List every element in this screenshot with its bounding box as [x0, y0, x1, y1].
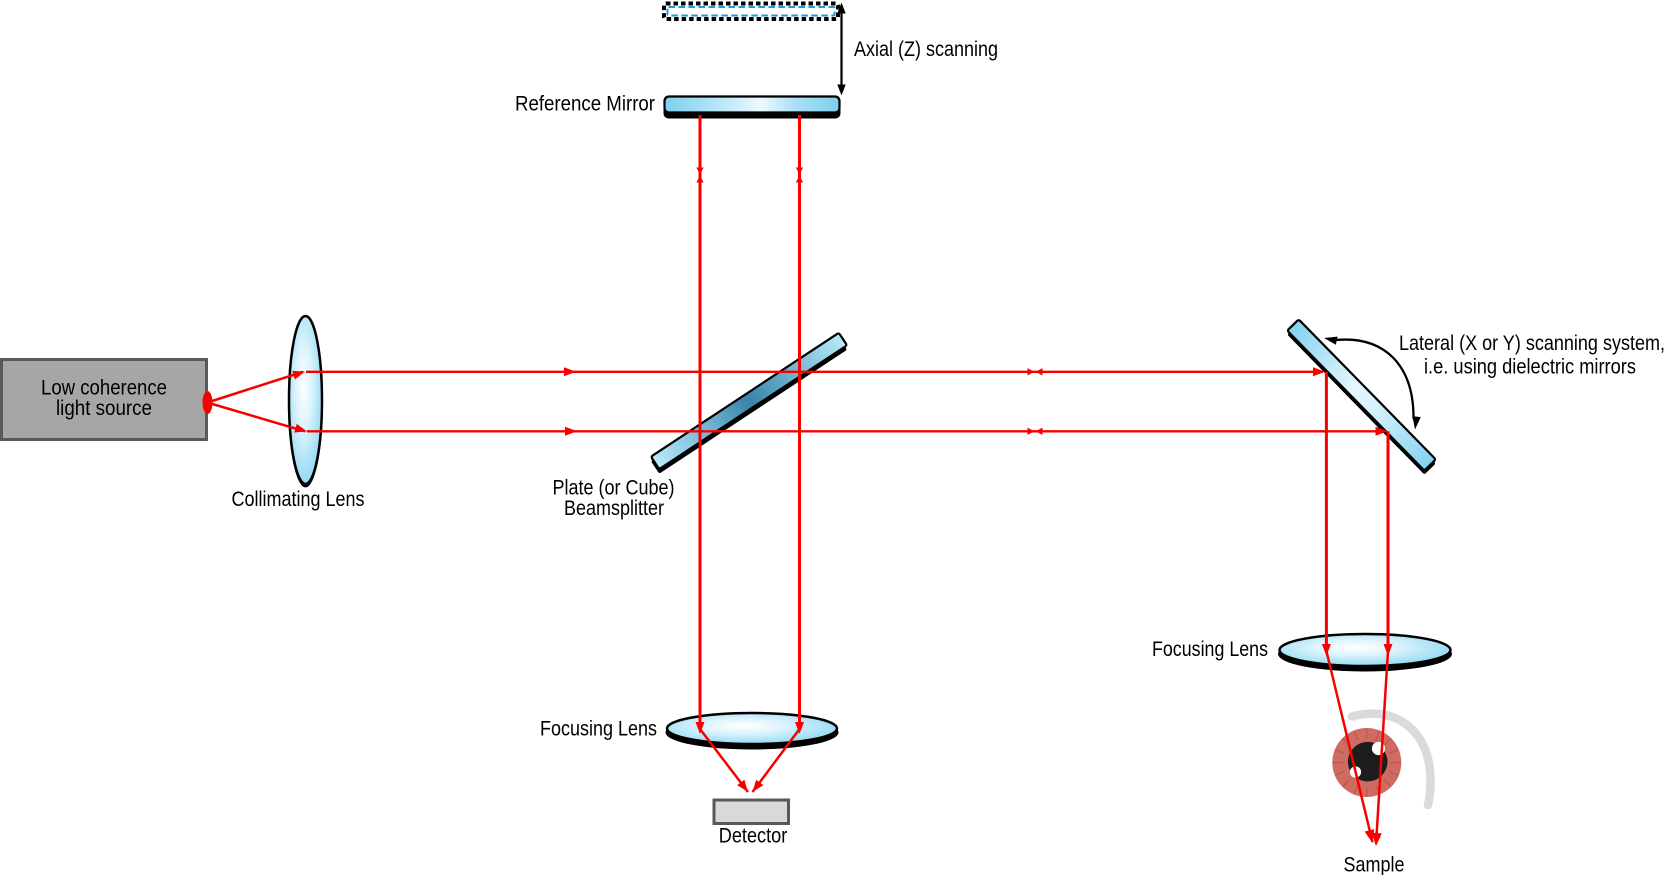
arrow: into detector-arm lens left	[696, 722, 705, 734]
arrow: lower horizontal mid	[565, 427, 577, 436]
double-arrow marker: reference arm left	[696, 168, 703, 183]
svg-text:Lateral (X or Y) scanning syst: Lateral (X or Y) scanning system,	[1399, 332, 1664, 355]
reference mirror	[664, 97, 841, 119]
eye sclera shading arc	[1352, 714, 1431, 805]
plate beamsplitter	[651, 333, 847, 474]
collimating lens	[288, 316, 323, 488]
focusing lens (detector arm)	[666, 713, 839, 750]
axial-scan ghost mirror (dashed selection rectangle)	[664, 4, 838, 20]
beam: sample arm vertical right	[1387, 431, 1390, 652]
red arrowheads	[292, 168, 1392, 847]
arrow: lower ray into collimating lens	[294, 424, 308, 436]
beam: converging to sample left	[1326, 651, 1372, 842]
eye iris	[1332, 728, 1401, 797]
arrow: into sample-arm lens right	[1384, 644, 1393, 656]
double-arrow marker: upper horizontal	[1028, 368, 1043, 375]
svg-text:Beamsplitter: Beamsplitter	[564, 497, 664, 520]
svg-text:i.e. using dielectric mirrors: i.e. using dielectric mirrors	[1424, 356, 1636, 379]
arrow: upper horizontal at lateral mirror	[1313, 367, 1325, 376]
pupil glints	[1372, 742, 1385, 755]
arrow: upper ray into collimating lens	[292, 367, 306, 379]
svg-text:Focusing Lens: Focusing Lens	[540, 718, 657, 741]
beam: upper horizontal (lens to lateral mirror)	[306, 371, 1323, 373]
beam: converging to detector left	[700, 729, 748, 792]
rotation arc of scanning mirror	[1323, 334, 1421, 430]
svg-text:Sample: Sample	[1344, 854, 1405, 876]
double-arrow marker: reference arm right	[796, 168, 803, 183]
arrow: into sample-arm lens left	[1322, 644, 1331, 656]
beam: converging to detector right	[753, 729, 800, 792]
beam: source to collimating lens (upper diverging ray)	[209, 372, 303, 402]
axial scanning double-headed arrow	[837, 3, 845, 96]
arrow: converge at sample left	[1365, 829, 1378, 844]
focusing lens (sample arm)	[1278, 634, 1452, 672]
beam: sample arm vertical left	[1325, 372, 1328, 652]
beam: reference arm vertical left	[699, 115, 702, 730]
arrow: converge at detector right	[749, 780, 763, 795]
beam: reference arm vertical right	[798, 115, 801, 730]
svg-text:Detector: Detector	[719, 825, 788, 848]
svg-text:Focusing Lens: Focusing Lens	[1152, 638, 1268, 661]
svg-text:Collimating Lens: Collimating Lens	[232, 488, 365, 511]
eye pupil	[1348, 742, 1388, 782]
arrow: converge at sample right	[1371, 833, 1382, 847]
arrow: into detector-arm lens right	[795, 722, 804, 734]
detector box	[714, 800, 789, 824]
arrow: upper horizontal mid	[564, 367, 576, 376]
beam: lower horizontal (lens to lateral mirror)	[307, 430, 1386, 432]
beam: converging to sample right	[1376, 651, 1388, 844]
beam: source to collimating lens (lower diverging ray)	[209, 403, 305, 431]
svg-text:Reference Mirror: Reference Mirror	[515, 93, 655, 116]
svg-text:light source: light source	[56, 397, 152, 420]
arrow: lower horizontal at lateral mirror	[1376, 427, 1388, 436]
lateral scanning mirror	[1287, 319, 1436, 474]
svg-text:Plate (or Cube): Plate (or Cube)	[553, 477, 675, 500]
arrow: converge at detector left	[737, 780, 751, 795]
double-arrow marker: lower horizontal	[1028, 428, 1043, 435]
light source box	[2, 360, 207, 440]
source emission point (red ellipse)	[203, 391, 213, 414]
svg-text:Axial (Z) scanning: Axial (Z) scanning	[854, 38, 998, 61]
